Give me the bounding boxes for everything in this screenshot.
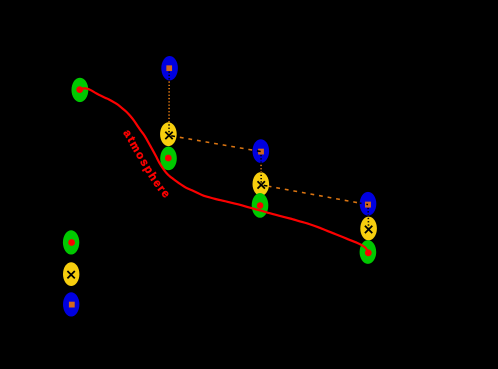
- black X marker yellow2: [258, 181, 265, 188]
- black X marker legend: [67, 271, 74, 278]
- red dot marker green3: [365, 249, 372, 256]
- legend green ellipse: [63, 230, 79, 254]
- red dot marker green2: [257, 202, 264, 209]
- black overlay dotted vertical square2 to X2: [260, 152, 262, 185]
- orange square marker blue1: [166, 65, 172, 71]
- black overlay dotted vertical square3 to X3: [367, 205, 370, 230]
- green ellipse group2: [252, 193, 269, 218]
- orange square marker legend: [69, 302, 75, 308]
- red dot marker legend: [68, 239, 75, 246]
- orange dashed connector X1 to square2 (under ellipses): [169, 135, 261, 151]
- legend blue ellipse: [63, 292, 79, 316]
- yellow ellipse group1: [160, 122, 177, 146]
- red dot marker green1: [165, 155, 172, 162]
- green ellipse group0: [72, 78, 89, 102]
- black X marker yellow3: [365, 226, 372, 233]
- black overlay dashed connector X2 to square3: [261, 185, 368, 205]
- blue ellipse group1: [161, 56, 178, 80]
- legend yellow ellipse: [63, 262, 79, 286]
- atmosphere text label: [123, 133, 169, 203]
- orange dotted vertical square1 to X1 (under ellipses): [168, 68, 170, 135]
- black overlay dashed connector X1 to square2: [169, 135, 261, 151]
- blue ellipse group2: [252, 139, 269, 163]
- black X marker yellow1: [165, 132, 172, 139]
- orange square marker blue2: [258, 149, 264, 155]
- black dashed overlays clipped to ellipses (over squares): [169, 135, 368, 204]
- red atmosphere curve: [80, 88, 368, 252]
- orange dotted vertical square2 to X2 (under ellipses): [260, 152, 262, 185]
- orange square marker blue3: [365, 202, 371, 208]
- yellow ellipse group3: [360, 217, 377, 241]
- yellow ellipse group2: [252, 172, 269, 196]
- green ellipse group1: [160, 147, 177, 171]
- orange dotted vertical square3 to X3 (under ellipses): [367, 205, 370, 230]
- green ellipse group3: [360, 240, 377, 264]
- blue ellipse group3: [360, 192, 377, 216]
- orange dashed connector X2 to square3 (under ellipses): [261, 185, 368, 205]
- red dot marker green0: [76, 86, 83, 93]
- black overlay dotted vertical square1 to X1: [168, 68, 170, 135]
- black dotted overlays clipped to ellipses (under squares): [169, 68, 369, 229]
